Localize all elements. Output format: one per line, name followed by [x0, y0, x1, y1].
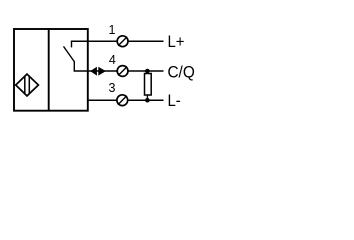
switch fixed contact stub: [71, 41, 73, 48]
switch blade: [64, 46, 75, 61]
sensor body divider: [48, 29, 50, 111]
wire C/Q (pin 4 to label): [74, 70, 164, 72]
wire L+ (pin 1 to label): [72, 40, 164, 42]
svg-text:4: 4: [109, 53, 116, 67]
junction on C/Q: [145, 69, 150, 74]
svg-text:L+: L+: [167, 33, 184, 51]
wire L- (pin 3 to label): [88, 99, 164, 101]
terminal 3: [117, 95, 128, 106]
resistor (load between C/Q and L-): [145, 71, 152, 100]
svg-text:3: 3: [109, 81, 116, 95]
svg-text:C/Q: C/Q: [167, 63, 194, 82]
junction on L-: [145, 98, 150, 103]
svg-text:L-: L-: [167, 92, 180, 110]
terminal 1: [117, 36, 128, 47]
IO-Link bidirectional arrows: [90, 67, 106, 76]
proximity sensor symbol (diamond): [16, 74, 39, 96]
switch output lead: [73, 61, 75, 71]
sensor body outline: [14, 29, 88, 111]
terminal 4: [117, 66, 128, 77]
svg-text:1: 1: [109, 23, 116, 37]
